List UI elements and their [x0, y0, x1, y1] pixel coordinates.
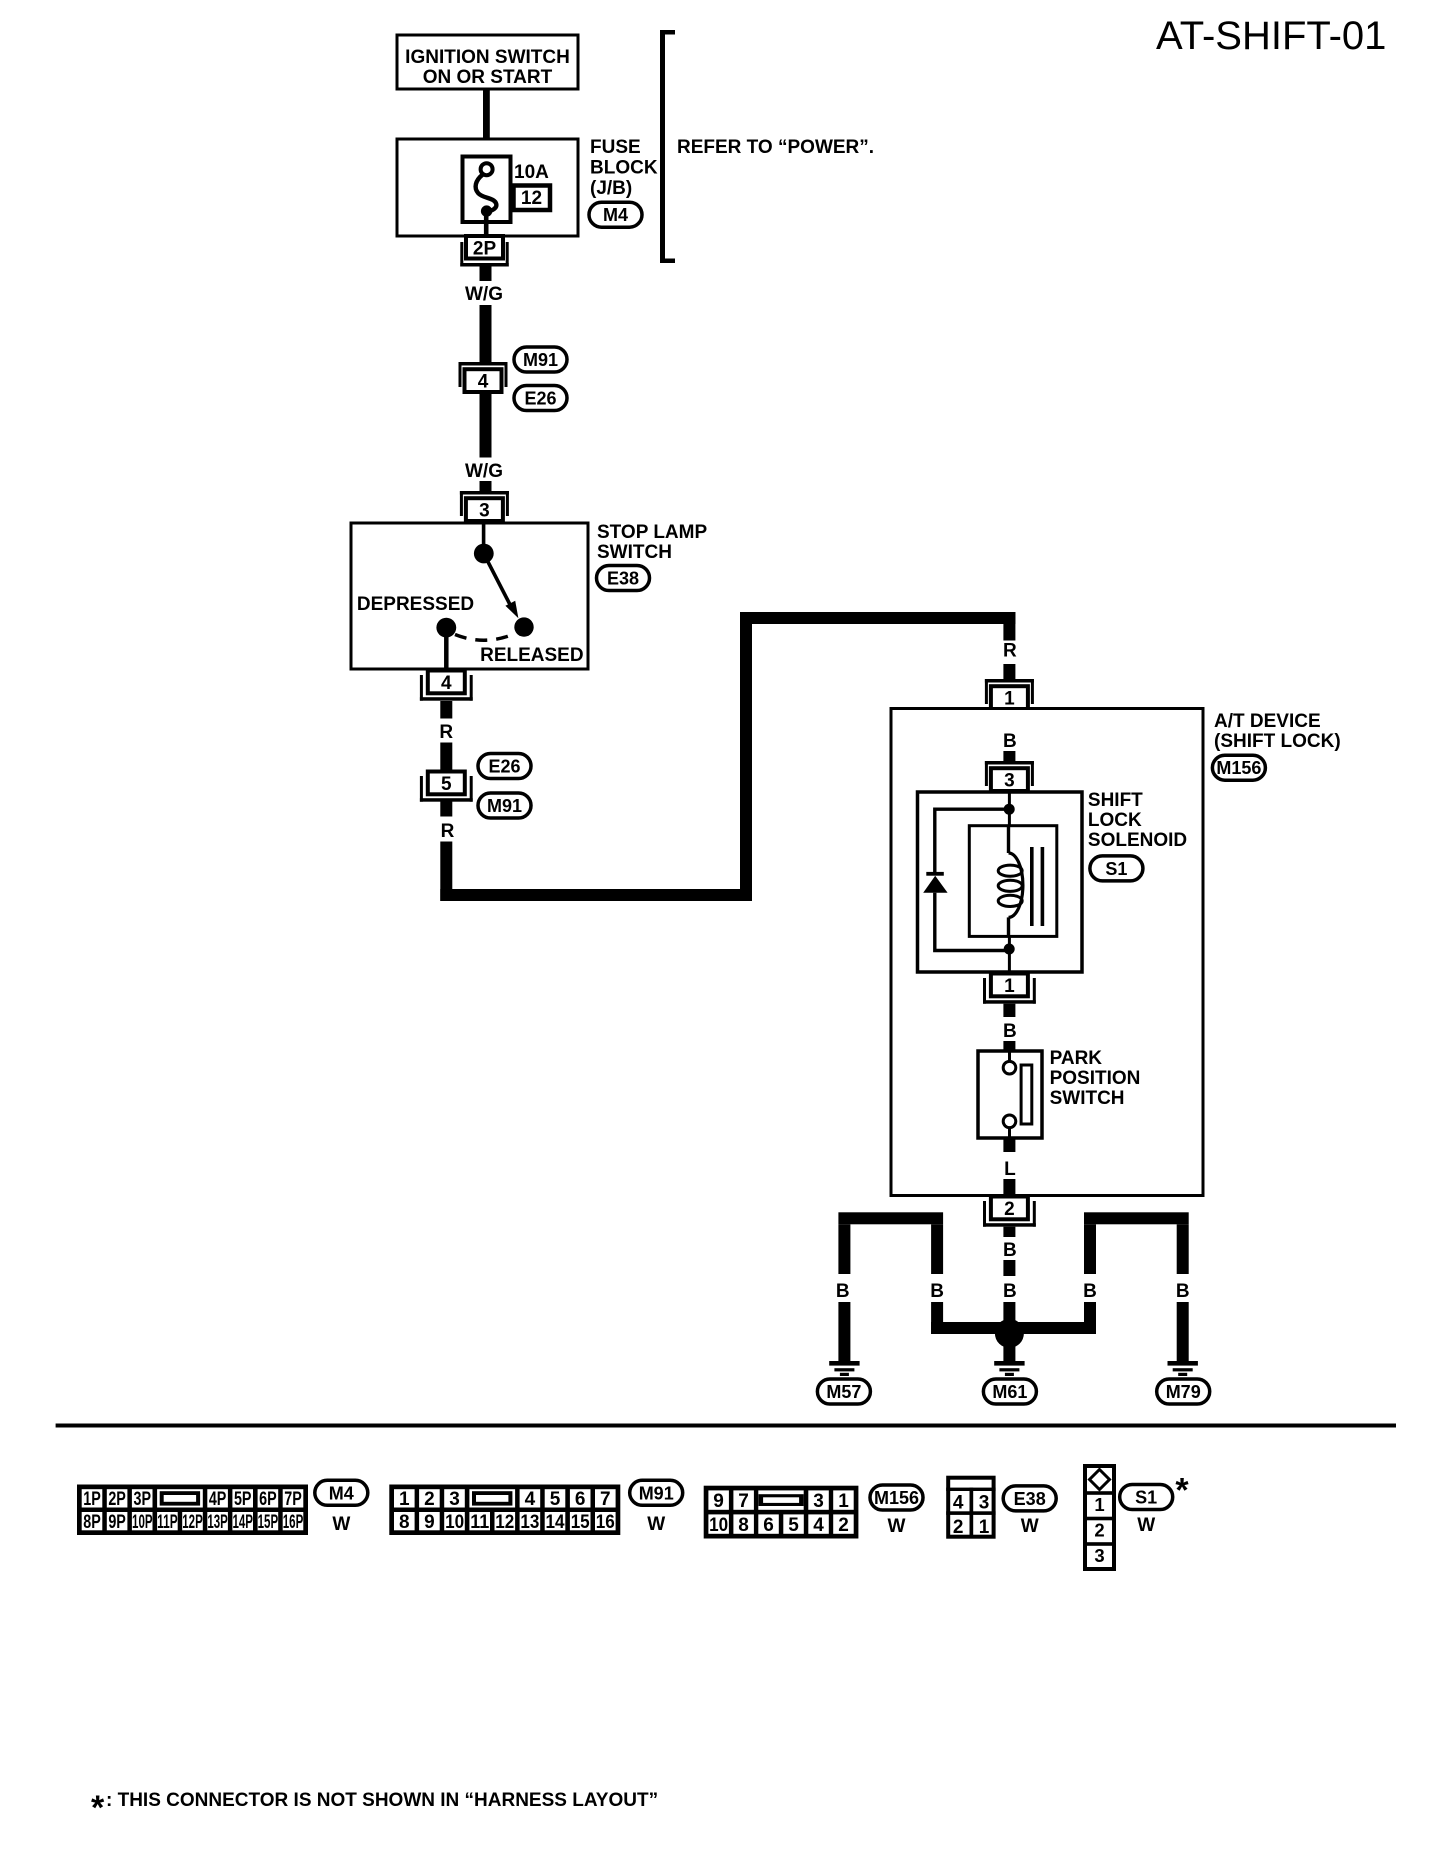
svg-text:1: 1: [838, 1491, 849, 1512]
svg-text:BLOCK: BLOCK: [590, 158, 658, 179]
oval M91 bottom: [630, 1480, 683, 1505]
ground branch bars left: [838, 1212, 943, 1224]
svg-text:9: 9: [424, 1512, 435, 1533]
svg-text:16: 16: [596, 1512, 615, 1533]
svg-text:8P: 8P: [83, 1512, 101, 1533]
svg-text:B: B: [1003, 731, 1017, 752]
oval S1 bottom: [1120, 1485, 1173, 1510]
svg-text:9P: 9P: [108, 1512, 126, 1533]
svg-text:4: 4: [478, 372, 489, 393]
svg-text:*: *: [91, 1789, 105, 1827]
fuse rating label 10A: [514, 162, 549, 183]
svg-text:W: W: [1021, 1516, 1039, 1537]
svg-text:3: 3: [479, 501, 490, 522]
svg-text:S1: S1: [1135, 1488, 1157, 1508]
junction node: [995, 1319, 1024, 1348]
svg-text:W/G: W/G: [465, 284, 503, 305]
ground branch bars right: [1084, 1212, 1189, 1224]
svg-text:B: B: [1003, 1240, 1017, 1261]
svg-text:B: B: [1003, 1021, 1017, 1042]
svg-text:(J/B): (J/B): [590, 178, 632, 199]
svg-text:A/T DEVICE: A/T DEVICE: [1214, 711, 1321, 732]
wire M57 branch lower: [838, 1302, 850, 1361]
dashed arc between terminals: [455, 634, 515, 641]
svg-text:3: 3: [1094, 1545, 1104, 1566]
svg-text:4: 4: [813, 1515, 824, 1536]
svg-text:PARK: PARK: [1050, 1048, 1103, 1069]
connector oval S1 at solenoid: [1090, 856, 1143, 881]
label B above park switch: [1003, 1021, 1017, 1042]
svg-text:5: 5: [788, 1515, 799, 1536]
wire inner-right branch lower: [1009, 1302, 1096, 1334]
wire R to connector 5: [440, 743, 452, 771]
svg-text:IGNITION SWITCH: IGNITION SWITCH: [405, 47, 570, 68]
svg-text:B: B: [1176, 1281, 1190, 1302]
svg-text:(SHIFT LOCK): (SHIFT LOCK): [1214, 731, 1341, 752]
ground symbol M61: [994, 1361, 1024, 1376]
connector face M91: [389, 1485, 620, 1536]
svg-text:E26: E26: [488, 757, 520, 777]
svg-text:M4: M4: [603, 205, 628, 225]
oval E38 bottom: [1003, 1486, 1056, 1511]
svg-text:12: 12: [521, 188, 542, 209]
svg-text:SWITCH: SWITCH: [1050, 1088, 1125, 1109]
svg-text:7P: 7P: [284, 1489, 302, 1510]
connector face S1: [1085, 1466, 1114, 1569]
label W/G: [465, 284, 503, 305]
connector oval M156 at device: [1212, 755, 1265, 780]
svg-text:M4: M4: [329, 1483, 354, 1503]
svg-text:8: 8: [738, 1515, 749, 1536]
svg-text:2: 2: [424, 1489, 435, 1510]
svg-text:M57: M57: [826, 1382, 861, 1402]
svg-text:2: 2: [1094, 1520, 1104, 1541]
label STOP LAMP SWITCH: [597, 522, 707, 563]
wire stub below connector 1: [1003, 1004, 1015, 1017]
svg-text:W: W: [332, 1514, 350, 1535]
color W S1: [1137, 1515, 1155, 1536]
svg-text:SWITCH: SWITCH: [597, 542, 672, 563]
svg-text:10A: 10A: [514, 162, 549, 183]
ground symbol M79: [1168, 1361, 1198, 1376]
svg-text:2: 2: [1004, 1199, 1015, 1220]
svg-text:9: 9: [713, 1491, 724, 1512]
connector 4 M91/E26 inline: [459, 362, 508, 393]
svg-text:10: 10: [709, 1515, 728, 1536]
oval M156 bottom: [870, 1485, 923, 1510]
svg-text:W: W: [1137, 1515, 1155, 1536]
svg-text:RELEASED: RELEASED: [480, 645, 583, 666]
svg-text:13P: 13P: [207, 1512, 228, 1533]
svg-text:POSITION: POSITION: [1050, 1068, 1141, 1089]
svg-text:1: 1: [979, 1517, 990, 1538]
connector 1 below solenoid: [983, 974, 1036, 1004]
wire M79 branch upper: [1177, 1224, 1189, 1274]
wire inner-left branch lower: [931, 1302, 1009, 1334]
footnote harness layout: [91, 1789, 658, 1827]
connector 2 M156 below device: [983, 1197, 1036, 1227]
svg-text:L: L: [1004, 1159, 1016, 1180]
svg-text:2: 2: [953, 1517, 964, 1538]
ground oval M79: [1157, 1379, 1210, 1404]
ground oval M61: [983, 1379, 1036, 1404]
connector oval E26 lower: [478, 754, 531, 779]
wire stub above connector 1: [1003, 664, 1015, 679]
wire junction to ground M61: [1003, 1341, 1015, 1361]
ground oval M57: [817, 1379, 870, 1404]
svg-text:E38: E38: [1014, 1489, 1046, 1509]
svg-text:M156: M156: [1216, 758, 1261, 778]
svg-text:7: 7: [738, 1491, 749, 1512]
wire segment to junction: [1003, 1302, 1015, 1326]
svg-text:15: 15: [571, 1512, 590, 1533]
svg-text:6: 6: [763, 1515, 774, 1536]
svg-text:*: *: [1175, 1472, 1189, 1510]
stop lamp switch arrow to released: [486, 558, 518, 618]
separator line: [56, 1424, 1396, 1428]
svg-text:STOP LAMP: STOP LAMP: [597, 522, 707, 543]
label SHIFT LOCK SOLENOID: [1088, 790, 1187, 851]
svg-text:4P: 4P: [209, 1489, 227, 1510]
label B below connector 1: [1003, 731, 1017, 752]
wire M57 branch upper: [838, 1224, 850, 1274]
connector 3 E38 inline: [460, 491, 509, 522]
svg-text:12: 12: [495, 1512, 514, 1533]
svg-text:B: B: [836, 1281, 850, 1302]
svg-text:10P: 10P: [132, 1512, 153, 1533]
title AT-SHIFT-01: [1156, 14, 1386, 58]
ignition switch power source box: [397, 35, 578, 89]
label B inner-left branch: [930, 1281, 944, 1302]
svg-text:3: 3: [979, 1493, 990, 1514]
svg-text:14P: 14P: [232, 1512, 253, 1533]
wire L to connector 2: [1003, 1179, 1015, 1196]
svg-text:FUSE: FUSE: [590, 137, 641, 158]
wire stub below park switch: [1003, 1138, 1015, 1152]
svg-text:AT-SHIFT-01: AT-SHIFT-01: [1156, 14, 1386, 58]
wire W/G to connector M91/E26: [480, 305, 492, 362]
svg-text:4: 4: [953, 1493, 964, 1514]
wire ignition switch to fuse block: [483, 89, 490, 139]
svg-text:M91: M91: [487, 796, 522, 816]
svg-text:B: B: [1003, 1281, 1017, 1302]
svg-text:11P: 11P: [157, 1512, 178, 1533]
svg-text:E38: E38: [607, 569, 639, 589]
wire stub above connector 3: [480, 481, 492, 491]
svg-text:R: R: [441, 821, 455, 842]
stop lamp switch common terminal: [474, 523, 494, 563]
solenoid core lines: [1030, 847, 1044, 926]
svg-text:3: 3: [1004, 771, 1015, 792]
ground symbol M57: [829, 1361, 859, 1376]
svg-text:1: 1: [1094, 1494, 1104, 1515]
park position switch contacts: [1003, 1051, 1032, 1138]
svg-text:4: 4: [525, 1489, 536, 1510]
color W M4: [332, 1514, 350, 1535]
connector face E38: [946, 1478, 995, 1538]
solenoid feed wire and node: [1004, 792, 1015, 826]
diode clamp loop: [935, 809, 1009, 950]
connector 2P on fuse block: [460, 236, 508, 267]
svg-text:3: 3: [449, 1489, 460, 1510]
solenoid coil inner box: [969, 826, 1057, 937]
connector oval M4: [589, 202, 642, 227]
label A/T DEVICE (SHIFT LOCK): [1214, 711, 1341, 752]
shift lock solenoid outer box: [918, 792, 1083, 972]
svg-text:12P: 12P: [182, 1512, 203, 1533]
svg-text:15P: 15P: [258, 1512, 279, 1533]
svg-text:2: 2: [838, 1515, 849, 1536]
wire stub below connector 2: [1003, 1227, 1015, 1237]
label B inner-right branch: [1083, 1281, 1097, 1302]
svg-text:14: 14: [546, 1512, 565, 1533]
wire segment B: [1003, 1260, 1015, 1276]
connector 5 E26/M91 inline: [420, 772, 473, 802]
wire B to park switch: [1003, 1041, 1015, 1051]
svg-text:R: R: [439, 722, 453, 743]
svg-text:3P: 3P: [134, 1489, 152, 1510]
solenoid bottom node and wire: [1004, 936, 1015, 972]
svg-text:B: B: [930, 1281, 944, 1302]
svg-text:1: 1: [1004, 689, 1015, 710]
svg-text:REFER TO “POWER”.: REFER TO “POWER”.: [677, 137, 874, 158]
wire stub above connector 3: [1003, 751, 1015, 761]
svg-text:SHIFT: SHIFT: [1088, 790, 1143, 811]
wire inner-right branch upper: [1084, 1224, 1096, 1274]
label RELEASED: [480, 645, 583, 666]
svg-text:10: 10: [445, 1512, 464, 1533]
label R 2: [441, 821, 455, 842]
svg-text:W: W: [888, 1516, 906, 1537]
svg-text:13: 13: [520, 1512, 539, 1533]
label R at A/T device: [1003, 641, 1017, 662]
A/T device shift lock box M156: [891, 709, 1203, 1196]
label B center: [1003, 1281, 1017, 1302]
stop lamp switch box: [351, 523, 588, 669]
svg-text:B: B: [1083, 1281, 1097, 1302]
svg-text:6: 6: [575, 1489, 586, 1510]
svg-text:W/G: W/G: [465, 461, 503, 482]
svg-text:2P: 2P: [473, 239, 497, 260]
stop lamp switch depressed terminal: [436, 618, 456, 669]
label W/G 2: [465, 461, 503, 482]
wire stub below connector 5: [440, 802, 452, 817]
fuse 10A no.12: [463, 157, 511, 237]
wire M79 branch lower: [1177, 1302, 1189, 1361]
svg-text:5: 5: [550, 1489, 561, 1510]
connector 4 below stop lamp switch: [420, 671, 473, 701]
label B below connector 2: [1003, 1240, 1017, 1261]
diode D1: [923, 872, 947, 893]
svg-text:1: 1: [1004, 976, 1015, 997]
svg-text:: THIS CONNECTOR IS NOT SHOWN: : THIS CONNECTOR IS NOT SHOWN IN “HARNES…: [106, 1790, 658, 1811]
svg-text:M156: M156: [874, 1488, 919, 1508]
label R: [439, 722, 453, 743]
svg-text:M61: M61: [992, 1382, 1027, 1402]
connector oval M91 upper: [514, 347, 567, 372]
fuse number box 12: [514, 186, 551, 211]
svg-text:2P: 2P: [108, 1489, 126, 1510]
wire R stub below connector 4: [440, 701, 452, 719]
label B M57 branch: [836, 1281, 850, 1302]
oval M4 bottom: [315, 1480, 368, 1505]
label PARK POSITION SWITCH: [1050, 1048, 1141, 1109]
stop lamp switch released terminal: [514, 617, 533, 636]
svg-text:ON OR START: ON OR START: [423, 67, 553, 88]
color W M91: [647, 1514, 665, 1535]
color W M156: [888, 1516, 906, 1537]
fuse block (J/B) box M4: [397, 139, 578, 236]
svg-text:W: W: [647, 1514, 665, 1535]
svg-text:M91: M91: [523, 350, 558, 370]
svg-text:6P: 6P: [259, 1489, 277, 1510]
svg-text:3: 3: [813, 1491, 824, 1512]
svg-text:7: 7: [600, 1489, 611, 1510]
svg-text:5P: 5P: [234, 1489, 252, 1510]
asterisk S1 not shown: [1175, 1472, 1189, 1510]
svg-text:5: 5: [441, 774, 452, 795]
svg-text:S1: S1: [1105, 859, 1127, 879]
label REFER TO POWER: [677, 137, 874, 158]
wire W/G stub below 2P: [480, 267, 492, 282]
connector face M156: [704, 1486, 859, 1539]
wire inner-left branch upper: [931, 1224, 943, 1274]
connector face M4: [77, 1485, 308, 1536]
connector oval E38 at switch: [597, 566, 650, 591]
svg-text:4: 4: [441, 673, 452, 694]
connector 3 shift lock solenoid: [985, 761, 1034, 792]
svg-text:1P: 1P: [83, 1489, 101, 1510]
connector oval E26 upper: [514, 386, 567, 411]
wire below connector 4: [480, 394, 492, 458]
svg-text:1: 1: [399, 1489, 410, 1510]
color W E38: [1021, 1516, 1039, 1537]
bracket refer to power: [660, 30, 675, 263]
label B M79 branch: [1176, 1281, 1190, 1302]
svg-text:R: R: [1003, 641, 1017, 662]
svg-text:DEPRESSED: DEPRESSED: [357, 594, 474, 615]
svg-text:M91: M91: [639, 1483, 674, 1503]
svg-text:8: 8: [399, 1512, 410, 1533]
connector 1 M156 inline: [985, 679, 1034, 710]
svg-text:16P: 16P: [283, 1512, 304, 1533]
solenoid coil S1: [998, 826, 1023, 937]
connector oval M91 lower: [478, 793, 531, 818]
svg-text:SOLENOID: SOLENOID: [1088, 830, 1187, 851]
label DEPRESSED: [357, 594, 474, 615]
routed wire stop lamp switch to shift lock: [440, 612, 1015, 901]
label FUSE BLOCK (J/B): [590, 137, 658, 199]
label L: [1004, 1159, 1016, 1180]
svg-text:M79: M79: [1166, 1382, 1201, 1402]
park position switch box: [978, 1051, 1042, 1138]
svg-text:E26: E26: [524, 389, 556, 409]
svg-text:11: 11: [470, 1512, 489, 1533]
svg-text:LOCK: LOCK: [1088, 810, 1142, 831]
